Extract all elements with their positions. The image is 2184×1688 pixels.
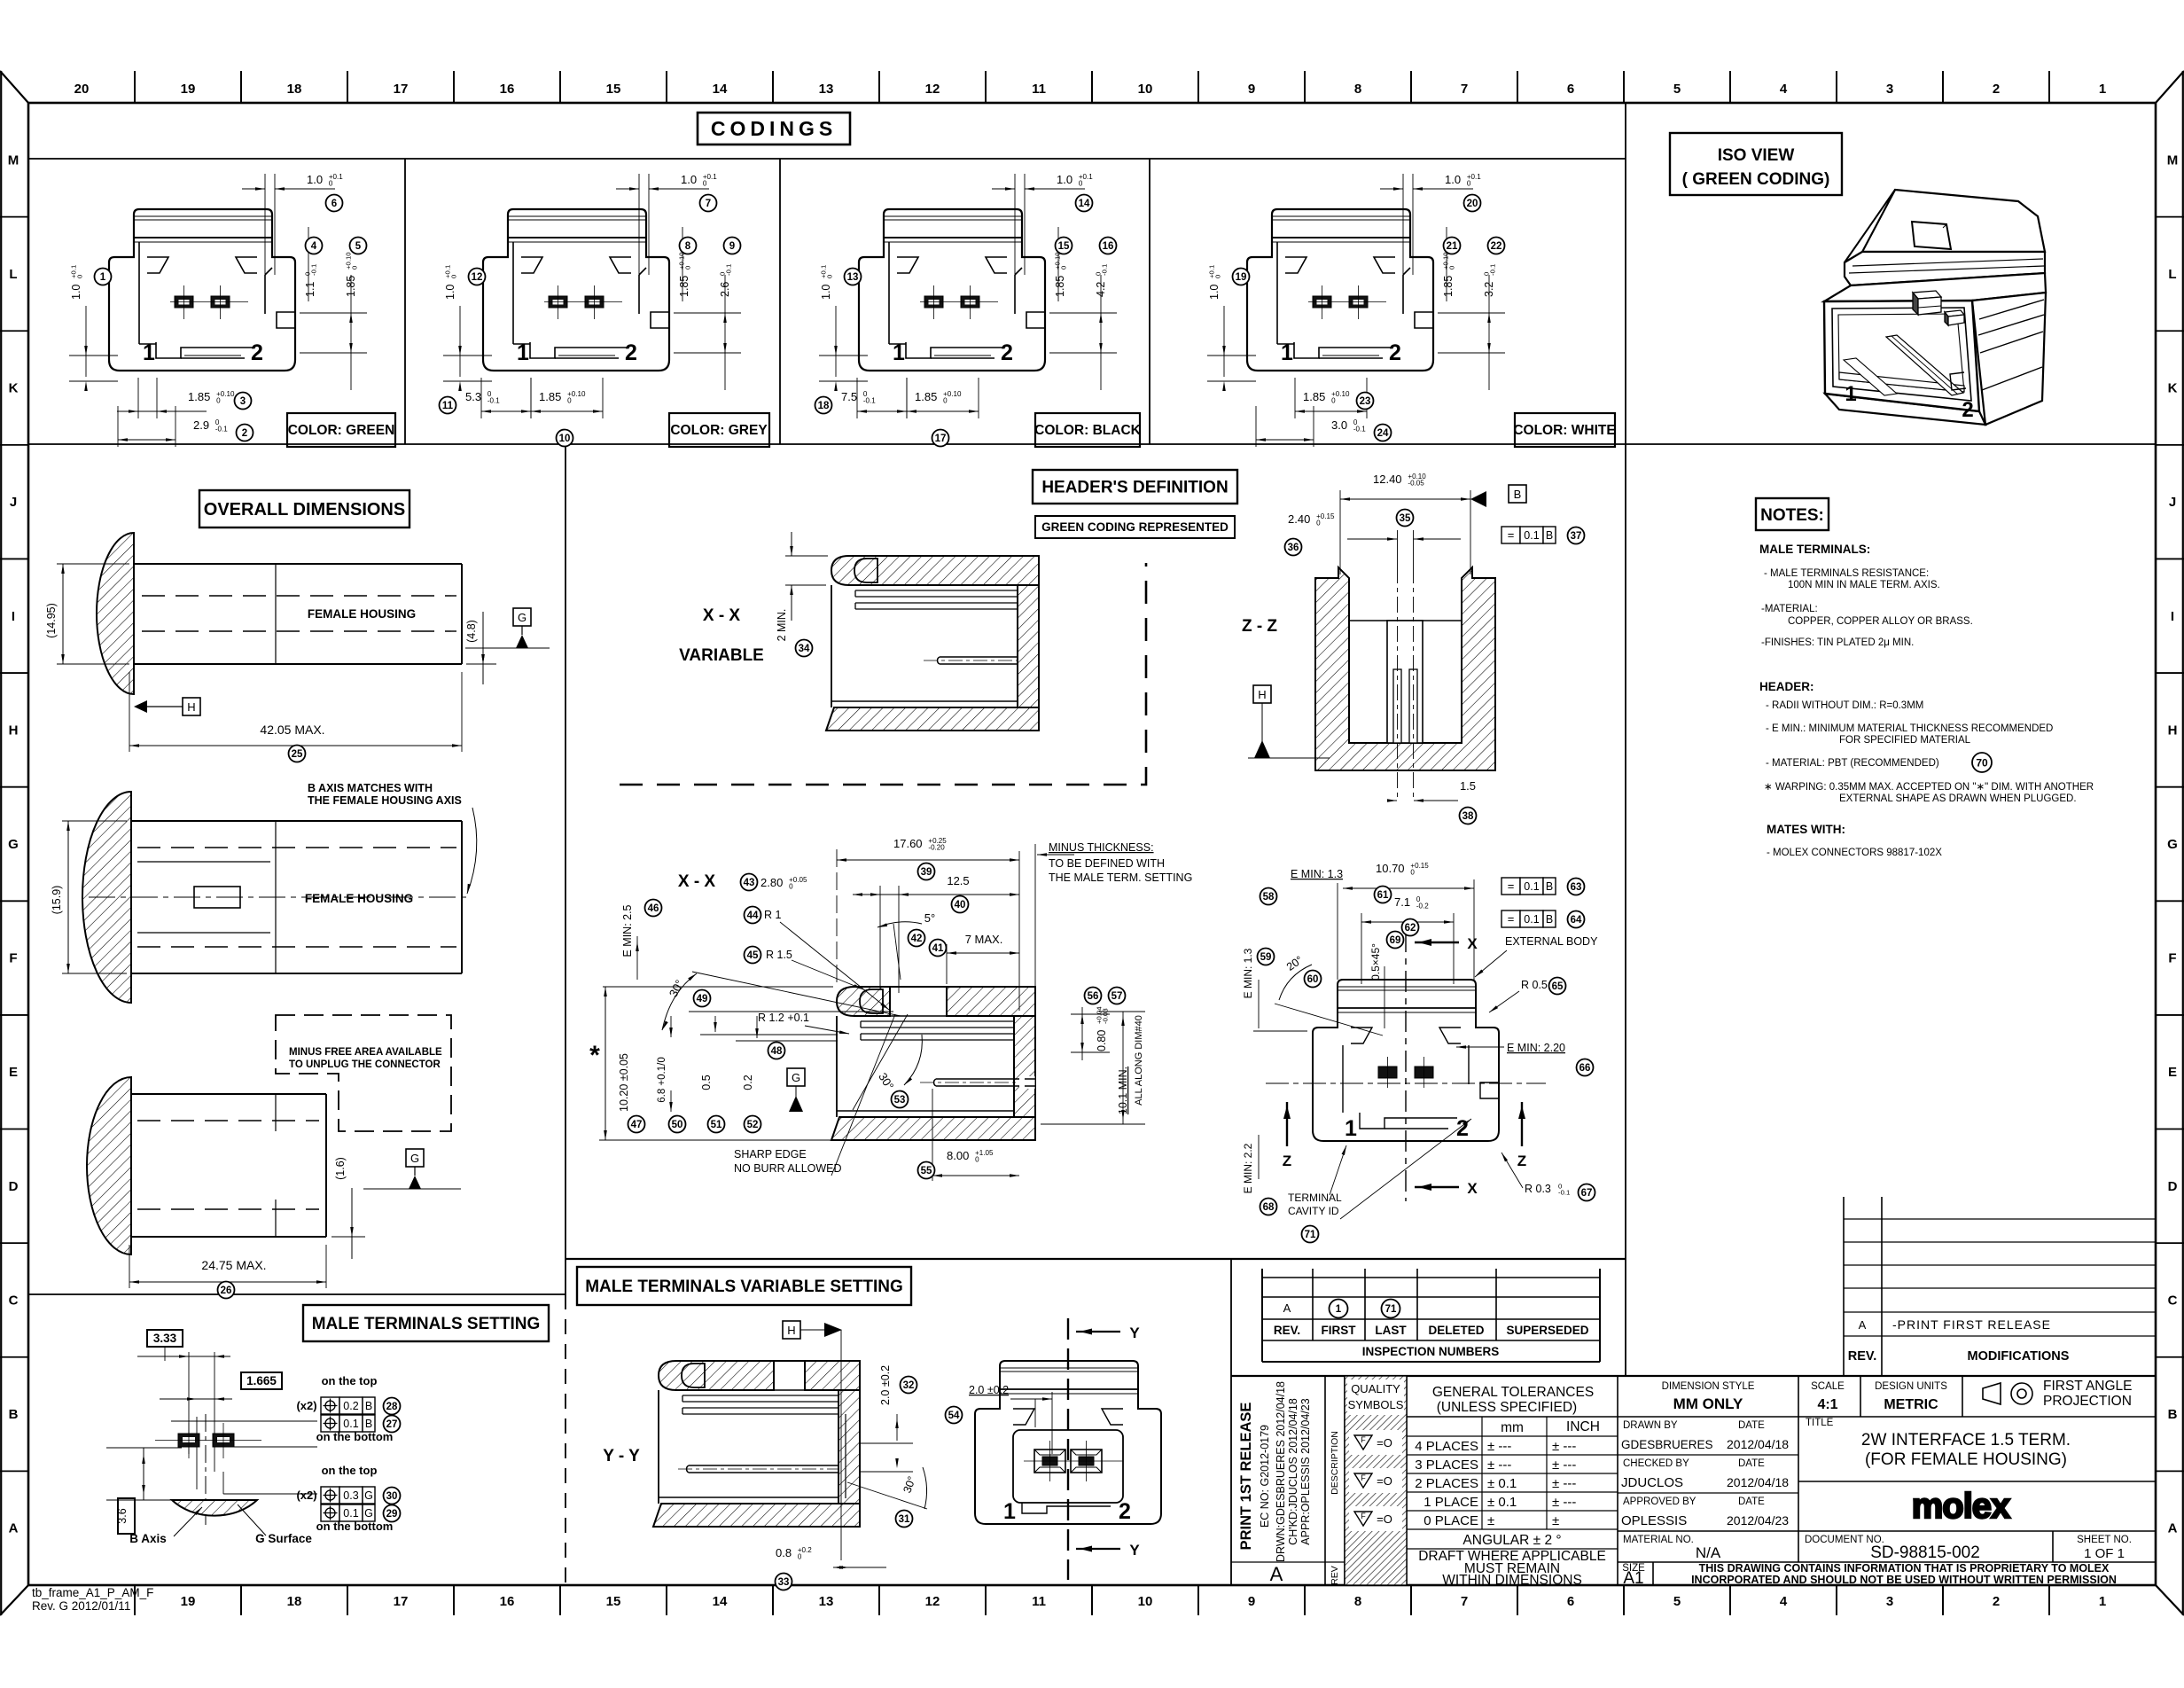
- parallelism frame 64: [1501, 910, 1520, 927]
- dimension 12.40 +0.10/-0.05: [1340, 473, 1470, 574]
- svg-text:3: 3: [240, 396, 246, 407]
- color box white: [1515, 413, 1615, 447]
- svg-text:12.40: 12.40: [1373, 473, 1402, 486]
- svg-text:K: K: [9, 381, 19, 396]
- svg-text:20: 20: [74, 82, 90, 97]
- svg-text:COLOR: GREY: COLOR: GREY: [670, 423, 768, 438]
- svg-text:24.75 MAX.: 24.75 MAX.: [201, 1258, 266, 1272]
- svg-text:15: 15: [606, 82, 621, 97]
- svg-text:55: 55: [921, 1166, 932, 1176]
- svg-text:H: H: [1258, 688, 1266, 701]
- svg-text:B: B: [2168, 1407, 2178, 1422]
- svg-text:MALE TERMINALS SETTING: MALE TERMINALS SETTING: [312, 1315, 541, 1333]
- svg-text:9: 9: [729, 241, 735, 252]
- svg-text:±: ±: [1552, 1513, 1559, 1528]
- centerline horizontal lower z view: [1266, 1082, 1546, 1084]
- svg-text:0.1: 0.1: [343, 1418, 358, 1430]
- svg-text:2: 2: [1389, 340, 1401, 365]
- svg-text:L: L: [9, 267, 17, 282]
- svg-text:MATES WITH:: MATES WITH:: [1767, 823, 1845, 836]
- svg-text:54: 54: [948, 1411, 960, 1421]
- svg-text:0: 0: [1059, 266, 1067, 270]
- svg-text:17: 17: [935, 434, 947, 444]
- svg-text:- MATERIAL: PBT (RECOMMENDED): - MATERIAL: PBT (RECOMMENDED): [1766, 758, 1939, 769]
- svg-text:3.0: 3.0: [1331, 418, 1347, 432]
- svg-text:0: 0: [1331, 396, 1336, 404]
- svg-text:39: 39: [921, 867, 932, 878]
- svg-text:2: 2: [1119, 1499, 1131, 1524]
- svg-text:18: 18: [287, 82, 302, 97]
- position tolerance group top: [296, 1374, 393, 1443]
- svg-text:H: H: [9, 723, 19, 738]
- svg-text:68: 68: [1263, 1202, 1275, 1213]
- svg-text:G: G: [364, 1507, 373, 1520]
- material no cell: [1623, 1535, 1721, 1561]
- svg-text:3 PLACES: 3 PLACES: [1415, 1457, 1478, 1473]
- svg-text:-0.1: -0.1: [1488, 264, 1496, 276]
- color box green: [287, 413, 395, 447]
- dimension 1.0 left of coding green: [69, 265, 118, 391]
- drawn by cell: [1621, 1420, 1789, 1451]
- svg-text:FIRST: FIRST: [1322, 1324, 1357, 1337]
- svg-text:NOTES:: NOTES:: [1760, 506, 1824, 525]
- dimension 0.5: [700, 1016, 838, 1090]
- bottom ruler numbers 19-1: [181, 1594, 2107, 1609]
- svg-text:0: 0: [703, 179, 707, 187]
- svg-text:8: 8: [685, 241, 691, 252]
- svg-text:1: 1: [1845, 382, 1856, 406]
- svg-text:-FINISHES: TIN PLATED 2μ MIN.: -FINISHES: TIN PLATED 2μ MIN.: [1761, 637, 1914, 648]
- circled number 1: [95, 269, 112, 285]
- svg-text:45: 45: [747, 950, 759, 961]
- dimension 30 deg y-y: [847, 1467, 927, 1509]
- svg-text:CHECKED BY: CHECKED BY: [1623, 1458, 1689, 1469]
- svg-text:2: 2: [1993, 82, 2000, 97]
- svg-text:1.0: 1.0: [1057, 173, 1072, 186]
- dimension style cell: [1662, 1381, 1755, 1412]
- dimension 1.85 below coding white: [1295, 378, 1367, 418]
- circled number 36: [1285, 539, 1302, 556]
- svg-text:B: B: [365, 1418, 372, 1430]
- svg-text:17: 17: [394, 1594, 409, 1609]
- svg-text:Z - Z: Z - Z: [1242, 617, 1277, 636]
- codings panel divider grey/black: [779, 159, 781, 444]
- svg-text:1: 1: [893, 340, 905, 365]
- svg-text:0: 0: [216, 396, 221, 404]
- svg-text:OVERALL DIMENSIONS: OVERALL DIMENSIONS: [204, 500, 405, 520]
- dimension 2.6 right of coding grey: [674, 264, 741, 390]
- svg-text:70: 70: [1976, 756, 1988, 769]
- svg-text:4:1: 4:1: [1817, 1397, 1837, 1412]
- svg-text:1: 1: [1345, 1116, 1357, 1141]
- svg-text:F: F: [2168, 951, 2176, 966]
- svg-text:8: 8: [1354, 82, 1361, 97]
- svg-text:± ---: ± ---: [1552, 1439, 1576, 1454]
- svg-text:(14.95): (14.95): [45, 603, 58, 638]
- svg-text:I: I: [12, 609, 15, 624]
- svg-text:71: 71: [1385, 1304, 1397, 1315]
- dimension 10.1 MIN: [1041, 1012, 1145, 1124]
- circled number 69: [1387, 932, 1404, 949]
- dimension 1.0 top of coding green: [242, 173, 343, 303]
- dimension 42.05 MAX view 1: [129, 672, 462, 752]
- svg-text:ISO VIEW: ISO VIEW: [1718, 146, 1795, 165]
- svg-text:F: F: [1361, 1512, 1366, 1520]
- dimension 0.8 +0.2: [776, 1546, 886, 1569]
- svg-text:1.0: 1.0: [681, 173, 697, 186]
- svg-text:on the top: on the top: [322, 1374, 378, 1387]
- svg-text:5.3: 5.3: [465, 390, 481, 403]
- datum H flag y-y: [783, 1321, 842, 1560]
- svg-text:Z: Z: [1517, 1153, 1526, 1169]
- dimension R0.3 0/-0.1: [1501, 1153, 1570, 1196]
- svg-text:D: D: [2168, 1179, 2178, 1194]
- circled number 7: [700, 195, 717, 212]
- svg-text:1: 1: [1003, 1499, 1016, 1524]
- svg-text:2.0 ±0.2: 2.0 ±0.2: [879, 1365, 892, 1405]
- svg-text:1.0: 1.0: [820, 285, 832, 300]
- svg-text:0: 0: [329, 179, 333, 187]
- svg-text:0: 0: [798, 1552, 802, 1560]
- circled number 60: [1305, 971, 1322, 988]
- svg-text:GREEN CODING REPRESENTED: GREEN CODING REPRESENTED: [1041, 520, 1228, 534]
- svg-text:E MIN: 2.20: E MIN: 2.20: [1507, 1042, 1565, 1054]
- circled number 45: [745, 947, 761, 964]
- first angle projection cell: [1983, 1379, 2133, 1409]
- svg-text:27: 27: [386, 1419, 398, 1430]
- svg-text:A: A: [9, 1521, 19, 1536]
- svg-text:1: 1: [2099, 1594, 2106, 1609]
- svg-text:HEADER'S DEFINITION: HEADER'S DEFINITION: [1041, 479, 1228, 497]
- circled number 33: [776, 1574, 792, 1590]
- svg-text:16: 16: [1103, 241, 1114, 252]
- svg-text:29: 29: [386, 1509, 398, 1520]
- svg-text:28: 28: [386, 1402, 398, 1412]
- svg-text:(x2): (x2): [296, 1489, 316, 1502]
- svg-text:X - X: X - X: [678, 872, 716, 891]
- dimension (14.95) view 1: [45, 564, 129, 664]
- svg-text:34: 34: [799, 644, 810, 654]
- circled number 64: [1568, 911, 1585, 928]
- svg-text:HEADER:: HEADER:: [1759, 680, 1814, 693]
- svg-text:1.85: 1.85: [678, 276, 690, 297]
- connector front view coding white: [1247, 209, 1433, 371]
- svg-text:49: 49: [697, 994, 708, 1004]
- svg-text:R 0.3: R 0.3: [1525, 1183, 1551, 1195]
- svg-text:Z: Z: [1283, 1153, 1291, 1169]
- svg-text:0: 0: [350, 266, 358, 270]
- svg-text:K: K: [2168, 381, 2178, 396]
- dimension 4.2 right of coding black: [1049, 264, 1117, 390]
- svg-text:X: X: [1467, 1180, 1478, 1197]
- svg-text:tb_frame_A1_P_AM_F: tb_frame_A1_P_AM_F: [32, 1586, 153, 1599]
- svg-text:mm: mm: [1501, 1420, 1524, 1435]
- print first release column rotated texts: [1238, 1381, 1340, 1585]
- dimension 3.2 right of coding white: [1438, 264, 1505, 390]
- svg-text:on the top: on the top: [322, 1464, 378, 1477]
- dimension 2.80 +0.05: [760, 876, 807, 890]
- svg-text:1: 1: [100, 272, 106, 283]
- circled number 12: [469, 269, 486, 285]
- svg-text:- MALE TERMINALS RESISTANCE:: - MALE TERMINALS RESISTANCE:: [1764, 568, 1929, 579]
- svg-text:21: 21: [1447, 241, 1458, 252]
- svg-text:-0.1: -0.1: [215, 425, 228, 433]
- svg-text:7.1: 7.1: [1394, 895, 1410, 909]
- svg-text:FIRST ANGLE: FIRST ANGLE: [2043, 1379, 2133, 1394]
- svg-text:J: J: [2169, 495, 2176, 510]
- circled number 22: [1488, 238, 1505, 254]
- svg-text:1.0: 1.0: [444, 285, 456, 300]
- svg-text:11: 11: [442, 401, 454, 411]
- circled number 66: [1577, 1059, 1594, 1076]
- dimension 1.5 z-z: [1387, 779, 1476, 802]
- dimension 10.70 +0.15: [1343, 862, 1474, 980]
- datum H flag view 1: [134, 698, 200, 715]
- revision history table: [1844, 1197, 2156, 1376]
- svg-text:INCORPORATED AND SHOULD NOT: INCORPORATED AND SHOULD NOT BE USED WITH…: [1691, 1574, 2117, 1586]
- circled number 38: [1460, 808, 1477, 824]
- svg-text:32: 32: [903, 1380, 915, 1391]
- inspection table header row: [1274, 1324, 1589, 1337]
- circled number 29: [384, 1505, 401, 1522]
- circled number 59: [1258, 949, 1275, 965]
- section arrow X top: [1415, 935, 1478, 952]
- circled number 42: [909, 930, 925, 947]
- svg-text:0.1: 0.1: [343, 1507, 358, 1520]
- circled number 6: [326, 195, 343, 212]
- codings panel divider green/grey: [404, 159, 406, 444]
- OVERALL DIMENSIONS title box: [199, 490, 409, 527]
- dimension 7 MAX: [947, 933, 1019, 984]
- svg-text:GENERAL TOLERANCES: GENERAL TOLERANCES: [1432, 1385, 1594, 1400]
- svg-text:THIS DRAWING CONTAINS INFOR: THIS DRAWING CONTAINS INFORMATION THAT I…: [1699, 1562, 2110, 1575]
- svg-text:1: 1: [1281, 340, 1293, 365]
- datum H flag z-z: [1248, 685, 1330, 758]
- title block left vertical boundary: [1230, 1259, 1232, 1585]
- svg-text:EXTERNAL BODY: EXTERNAL BODY: [1505, 935, 1598, 948]
- svg-text:TO BE DEFINED WITH: TO BE DEFINED WITH: [1049, 857, 1165, 870]
- svg-text:E MIN: 1.3: E MIN: 1.3: [1242, 948, 1254, 998]
- circled number 34: [796, 640, 813, 657]
- dimension 0.5x45: [1369, 943, 1384, 1028]
- dimension 1.85 right of coding black: [1053, 227, 1067, 301]
- pin rod x-x: [920, 1079, 1019, 1086]
- svg-text:2: 2: [251, 340, 263, 365]
- circled number 35: [1397, 510, 1414, 527]
- svg-text:0: 0: [449, 275, 457, 278]
- svg-text:=O: =O: [1377, 1512, 1392, 1526]
- svg-text:F: F: [1361, 1473, 1366, 1482]
- svg-text:1.0: 1.0: [1208, 285, 1221, 300]
- circled number 25: [289, 746, 306, 762]
- svg-text:-0.03: -0.03: [1101, 1008, 1109, 1024]
- datum B flag with arrow: [1470, 485, 1526, 507]
- svg-text:40: 40: [955, 900, 966, 910]
- svg-text:A: A: [1270, 1563, 1283, 1585]
- svg-text:4: 4: [1780, 82, 1788, 97]
- circled number 55: [918, 1162, 935, 1179]
- svg-text:DATE: DATE: [1738, 1420, 1765, 1431]
- svg-text:6.8 +0.1/0: 6.8 +0.1/0: [657, 1057, 667, 1102]
- svg-text:± ---: ± ---: [1552, 1476, 1576, 1491]
- svg-text:0: 0: [789, 882, 793, 890]
- svg-text:0: 0: [1079, 179, 1083, 187]
- svg-text:B AXIS MATCHES WITH: B AXIS MATCHES WITH: [308, 782, 433, 794]
- section view X-X: [831, 987, 1035, 1140]
- top ruler numbers 20-1: [74, 82, 2107, 97]
- dimension 8.00 +1.05: [932, 1089, 1019, 1181]
- svg-text:1: 1: [2099, 82, 2106, 97]
- svg-text:51: 51: [711, 1120, 722, 1130]
- svg-text:GDESBRUERES: GDESBRUERES: [1621, 1438, 1713, 1451]
- male terminals variable setting section top line: [565, 1258, 1626, 1260]
- dimension R1.2 +0.1: [758, 1012, 849, 1034]
- svg-text:SUPERSEDED: SUPERSEDED: [1506, 1324, 1588, 1337]
- NOTES title box: [1756, 498, 1829, 530]
- svg-text:-0.1: -0.1: [863, 396, 876, 404]
- front view male terminals variable setting: [975, 1361, 1161, 1524]
- svg-text:2W INTERFACE 1.5 TERM.: 2W INTERFACE 1.5 TERM.: [1861, 1431, 2071, 1450]
- svg-text:B: B: [1546, 913, 1553, 926]
- circled number 2: [237, 425, 253, 442]
- svg-text:DRAWN BY: DRAWN BY: [1623, 1420, 1678, 1431]
- left margin row letters M-A: [8, 152, 19, 1536]
- svg-text:3: 3: [1886, 1594, 1893, 1609]
- codings section bottom line: [28, 443, 2156, 445]
- svg-text:1.1: 1.1: [304, 282, 316, 297]
- svg-text:DESCRIPTION: DESCRIPTION: [1330, 1431, 1340, 1495]
- circled number 28: [384, 1398, 401, 1415]
- svg-text:10: 10: [1138, 82, 1153, 97]
- svg-text:=O: =O: [1377, 1474, 1392, 1488]
- dimension 7.1 0/-0.2: [1361, 895, 1454, 984]
- circled number 61: [1375, 887, 1392, 903]
- circled number 39: [918, 864, 935, 880]
- svg-text:0.1: 0.1: [1524, 880, 1539, 893]
- svg-text:67: 67: [1581, 1188, 1593, 1199]
- svg-text:0: 0: [943, 396, 948, 404]
- svg-text:66: 66: [1579, 1063, 1591, 1074]
- svg-text:± ---: ± ---: [1552, 1495, 1576, 1510]
- svg-text:1.665: 1.665: [246, 1374, 277, 1387]
- svg-text:20: 20: [1467, 199, 1478, 209]
- svg-text:2012/04/23: 2012/04/23: [1727, 1513, 1789, 1528]
- document no cell: [1805, 1535, 1980, 1562]
- svg-text:50: 50: [672, 1120, 683, 1130]
- svg-text:1: 1: [517, 340, 529, 365]
- svg-text:0: 0: [825, 275, 833, 278]
- notes header text: [1764, 700, 2094, 804]
- circled number 53: [892, 1091, 909, 1108]
- dimension 30 deg upper: [662, 972, 901, 1030]
- svg-text:18: 18: [287, 1594, 302, 1609]
- svg-text:- RADII WITHOUT DIM.: R=0.3MM: - RADII WITHOUT DIM.: R=0.3MM: [1766, 700, 1923, 711]
- svg-text:R 1.2 +0.1: R 1.2 +0.1: [758, 1012, 809, 1024]
- svg-text:1.5: 1.5: [1460, 779, 1476, 793]
- svg-text:10: 10: [559, 434, 571, 444]
- svg-text:-0.20: -0.20: [928, 843, 945, 851]
- CODINGS title box: [698, 113, 850, 145]
- svg-text:2: 2: [625, 340, 637, 365]
- circled number 20: [1464, 195, 1481, 212]
- svg-text:5: 5: [1673, 82, 1681, 97]
- isometric view of green coding header: [1824, 190, 2046, 425]
- dimension (1.6) view 3: [331, 1157, 365, 1259]
- svg-text:L: L: [2168, 267, 2176, 282]
- svg-text:OPLESSIS: OPLESSIS: [1621, 1513, 1687, 1528]
- svg-text:7: 7: [1461, 82, 1468, 97]
- svg-text:26: 26: [221, 1286, 232, 1296]
- svg-text:1.0: 1.0: [1445, 173, 1461, 186]
- svg-text:I: I: [2171, 609, 2174, 624]
- svg-text:ANGULAR ± 2 °: ANGULAR ± 2 °: [1462, 1533, 1561, 1548]
- circled number 9: [724, 238, 741, 254]
- svg-text:44: 44: [747, 910, 759, 921]
- svg-text:12: 12: [925, 1594, 940, 1609]
- dimension 0.80 +0.04/-0.03: [1071, 1006, 1110, 1060]
- dimension 1.0 left of coding black: [819, 265, 868, 391]
- circled number 5: [350, 238, 367, 254]
- svg-text:9: 9: [1248, 1594, 1255, 1609]
- dimension 1.85 right of coding green: [300, 252, 367, 390]
- svg-text:58: 58: [1263, 892, 1275, 903]
- svg-text:57: 57: [1111, 991, 1123, 1002]
- svg-text:C: C: [9, 1293, 19, 1308]
- dimension 1.0 left of coding white: [1207, 265, 1256, 391]
- circled number 48: [768, 1043, 785, 1059]
- svg-text:PROJECTION: PROJECTION: [2043, 1394, 2132, 1409]
- svg-text:VARIABLE: VARIABLE: [679, 646, 764, 665]
- section arrow Z left: [1283, 1102, 1291, 1169]
- svg-text:69: 69: [1390, 935, 1401, 946]
- parallelism frame 63: [1501, 878, 1520, 895]
- svg-text:60: 60: [1307, 974, 1319, 985]
- size cell: [1622, 1563, 1645, 1588]
- svg-text:62: 62: [1405, 923, 1416, 934]
- svg-text:12: 12: [472, 272, 483, 283]
- svg-text:SD-98815-002: SD-98815-002: [1870, 1543, 1980, 1562]
- dimension R1.5: [766, 949, 863, 989]
- svg-text:10.70: 10.70: [1376, 862, 1405, 875]
- svg-text:± 0.1: ± 0.1: [1487, 1476, 1517, 1491]
- svg-text:19: 19: [181, 1594, 196, 1609]
- svg-text:TERMINAL: TERMINAL: [1288, 1192, 1342, 1204]
- MALE TERMINALS VARIABLE SETTING title box: [577, 1267, 911, 1305]
- svg-text:R 0.5: R 0.5: [1521, 979, 1548, 991]
- codings section top line: [28, 158, 1626, 160]
- circled number 1 inspection: [1330, 1300, 1348, 1318]
- svg-text:23: 23: [1360, 396, 1371, 407]
- dimension 1.1 right of coding green: [303, 227, 317, 301]
- front view external body: [1313, 980, 1499, 1141]
- svg-text:41: 41: [932, 943, 944, 954]
- svg-text:6: 6: [1567, 1594, 1574, 1609]
- dimension 5.3 below coding grey: [465, 378, 531, 418]
- dimension 30 deg lower: [853, 1014, 922, 1110]
- svg-text:APPR:OPLESSIS 2012/04: APPR:OPLESSIS 2012/04/23: [1299, 1398, 1312, 1544]
- circled number 70: [1972, 753, 1992, 772]
- dimension 1.85 right of coding grey: [677, 227, 691, 301]
- svg-text:Rev. G 2012/01/11: Rev. G 2012/01/11: [32, 1599, 130, 1613]
- svg-text:ALL ALONG DIM#40: ALL ALONG DIM#40: [1134, 1015, 1144, 1106]
- svg-text:0: 0: [1447, 266, 1455, 270]
- circled numbers 47 50 51 52: [628, 1116, 645, 1133]
- svg-text:6: 6: [331, 199, 337, 209]
- svg-text:2.80: 2.80: [760, 876, 783, 889]
- dimension 1.0 top of coding grey: [616, 173, 717, 303]
- MALE TERMINALS SETTING title box: [303, 1305, 549, 1341]
- svg-text:±: ±: [1487, 1513, 1494, 1528]
